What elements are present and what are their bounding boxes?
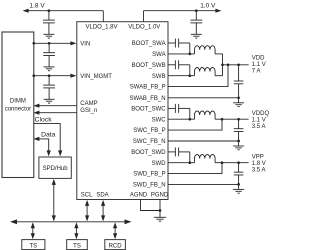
regulator IC box [77,22,168,200]
inductor LA [195,46,216,54]
label 1.8 V [30,2,46,9]
wire SWB [168,75,195,77]
label TS [73,244,81,250]
svg-text:VIN: VIN [80,41,90,47]
wire SCL to bus [85,200,89,222]
arrow CAMP to DIMM [33,104,39,108]
node VPP at FB_P riser [221,161,224,164]
svg-text:SWAB_FB_P: SWAB_FB_P [130,85,166,91]
ground (1.8 V rail cap) [43,34,54,38]
wire BOOT_SWA + bootstrap capacitor A [168,39,190,54]
svg-text:SWD_FB_P: SWD_FB_P [133,172,165,178]
wire BOOT_SWB + bootstrap capacitor B [168,60,190,75]
svg-text:SCL: SCL [81,192,93,198]
svg-text:3.5 A: 3.5 A [252,168,266,174]
node VDD at FB_P [227,63,230,66]
node VDDQ at FB_P riser [221,118,224,121]
SPD/Hub box [39,157,71,178]
svg-text:3.5 A: 3.5 A [252,124,266,130]
svg-text:SWB: SWB [152,74,166,80]
wire SDA to bus [101,200,105,222]
pin label VIN [80,41,90,47]
pin label SWD_FB_N [133,183,166,189]
DIMM connector box [2,32,34,178]
svg-text:connector: connector [5,107,31,113]
svg-text:VPP: VPP [252,155,264,161]
wire bus to RCD box [113,222,117,239]
svg-text:DIMM: DIMM [10,99,26,105]
svg-text:CAMP: CAMP [80,101,97,107]
arrow into VIN [70,41,76,45]
1.0 V rail arrow [215,9,221,13]
bus left arrow [10,219,17,224]
wire SPD/Hub to bus [53,183,55,217]
label DIMM connector [5,99,31,113]
RCD box [105,240,126,250]
arrow SPD link into bus [52,215,56,221]
pin label GSI_n [80,108,97,114]
pin label SWB [152,74,166,80]
pin label CAMP [80,101,97,107]
pin label SWC [152,117,167,123]
label VPP [252,155,266,174]
ground (VIN_MGMT cap) [44,99,55,103]
pin label SCL [81,192,93,198]
pin label VLDO_1.8V [85,24,117,30]
wire CAMP [39,105,77,107]
bus right arrow [125,219,132,224]
capacitor on 1.0 V rail [190,11,202,35]
pin label SWC_FB_P [133,128,165,134]
pin label SWAB_FB_P [130,85,166,91]
wire SWC_FB_P [168,119,222,130]
wire BOOT_SWD + bootstrap capacitor D [168,147,190,162]
svg-text:SWD: SWD [152,161,167,167]
inductor LB [195,67,216,75]
label SPD/Hub [43,166,69,172]
bus line [15,221,128,223]
wire SWD_FB_P [168,163,222,174]
wire SWAB_FB_P [168,65,228,87]
pin label VLDO_1.0V [128,24,160,30]
wire SWA/SWB joining riser [222,54,224,76]
label 1.0 V [200,2,216,9]
node SWD boot junction [188,161,191,164]
svg-text:BOOT_SWD: BOOT_SWD [131,150,166,156]
wire SWD [168,162,195,164]
node VIN at DIMM [32,42,35,45]
ground (AGND/PGND) [154,211,167,222]
wire SWA [168,53,195,55]
svg-text:1.1 V: 1.1 V [252,62,266,68]
label RCD [109,244,123,250]
node VDD at cap [237,63,240,66]
pin label BOOT_SWA [132,41,166,47]
svg-text:VLDO_1.0V: VLDO_1.0V [128,24,160,30]
output capacitor VPP [234,163,244,185]
ground (1.0 V rail cap) [191,34,202,38]
ground (VDD output) [233,98,244,107]
svg-text:VIN_MGMT: VIN_MGMT [80,74,112,80]
ground (VIN cap) [44,67,55,71]
TS box [67,240,88,250]
svg-text:AGND: AGND [130,192,148,198]
capacitor on VIN [43,43,55,67]
svg-text:BOOT_SWC: BOOT_SWC [131,107,166,113]
1.8 V rail arrow [23,9,29,13]
svg-text:SWC_FB_P: SWC_FB_P [133,128,165,134]
svg-text:SWC_FB_N: SWC_FB_N [133,139,166,145]
svg-text:SDA: SDA [96,192,108,198]
wire PGND [159,200,161,211]
wire VIN [34,42,71,44]
node VDDQ at cap [237,118,240,121]
node SWC boot junction [188,118,191,121]
net 1.8 V rail [28,11,104,22]
node VDD at riser [221,63,224,66]
arrow Data into SPD/Hub [47,150,51,156]
capacitor on 1.8 V rail [43,11,55,35]
label Data [41,132,56,139]
arrow Data to DIMM [33,137,39,141]
label Clock [35,116,53,123]
node AGND/PGND junction [159,209,162,212]
svg-text:PGND: PGND [151,192,169,198]
net 1.0 V rail [144,11,217,22]
svg-text:TS: TS [73,244,81,250]
arrow into VIN_MGMT [70,74,76,78]
node VIN_MGMT cap junction [48,74,51,77]
svg-text:BOOT_SWB: BOOT_SWB [132,63,166,69]
inductor LD [195,154,216,162]
output capacitor VDDQ [234,119,244,141]
wire SWD_FB_N [168,183,239,185]
svg-text:TS: TS [29,244,37,250]
svg-text:SWAB_FB_N: SWAB_FB_N [129,96,165,102]
node VPP at cap [237,161,240,164]
wire bus to TS box [74,222,78,239]
pin label SWD [152,161,167,167]
pin label AGND [130,192,148,198]
node SWB boot junction [188,74,191,77]
svg-text:1.1 V: 1.1 V [252,118,266,124]
pin label SWD_FB_P [133,172,165,178]
wire SWB to VDD node [215,75,222,77]
pin label SWC_FB_N [133,139,166,145]
arrow Clock into SPD/Hub [58,150,62,156]
wire Data [39,139,49,152]
node VIN_MGMT at DIMM [32,74,35,77]
node SWA boot junction [188,53,191,56]
svg-text:1.0 V: 1.0 V [200,2,216,9]
label VDDQ [252,111,270,130]
node SWD_FB_N cap junction [237,183,240,186]
node SWAB_FB_N cap junction [237,96,240,99]
label VDD [252,55,266,74]
arrow GSI_n to DIMM [33,111,39,115]
pin label VIN_MGMT [80,74,112,80]
pin label SWAB_FB_N [129,96,165,102]
wire SWC [168,118,195,120]
wire SWC_FB_N [168,140,239,142]
TS box [22,240,45,250]
svg-text:GSI_n: GSI_n [80,108,97,114]
node VIN cap junction [48,42,51,45]
ground (VPP output) [233,184,244,193]
net VDD output line [223,64,249,66]
svg-text:BOOT_SWA: BOOT_SWA [132,41,166,47]
wire AGND [141,200,161,211]
svg-text:SWD_FB_N: SWD_FB_N [133,183,166,189]
net VPP output line [215,162,249,164]
svg-text:SWA: SWA [152,52,165,58]
output capacitor VDD [234,65,244,98]
capacitor on VIN_MGMT [43,76,55,100]
pin label PGND [151,192,169,198]
ground (VDDQ output) [233,141,244,150]
inductor LC [195,111,216,119]
svg-text:SPD/Hub: SPD/Hub [43,166,69,172]
svg-text:Clock: Clock [35,116,53,123]
svg-text:7 A: 7 A [252,69,261,75]
arrow into SPD/Hub bottom [52,179,56,185]
wire SWA to VDD node [215,53,222,55]
svg-text:VDD: VDD [252,55,265,61]
node SWC_FB_N cap junction [237,140,240,143]
node 1.8V-cap junction [48,9,51,12]
pin label SWA [152,52,165,58]
pin label BOOT_SWC [131,107,166,113]
svg-text:SWC: SWC [152,117,167,123]
net VDDQ output line [215,118,249,120]
pin label SDA [96,192,108,198]
wire SWAB_FB_N [168,97,239,99]
svg-text:Data: Data [41,132,56,139]
wire BOOT_SWC + bootstrap capacitor C [168,104,190,119]
label TS [29,244,37,250]
svg-text:1.8 V: 1.8 V [252,161,266,167]
node 1.0V-cap junction [195,9,198,12]
wire Clock [33,124,60,152]
pin label BOOT_SWB [132,63,166,69]
svg-text:RCD: RCD [109,244,123,250]
wire VIN_MGMT [34,75,71,77]
pin label BOOT_SWD [131,150,166,156]
svg-text:1.8 V: 1.8 V [30,2,46,9]
svg-text:VLDO_1.8V: VLDO_1.8V [85,24,117,30]
wire bus to TS box [31,222,35,239]
wire GSI_n [39,112,77,114]
svg-text:VDDQ: VDDQ [252,111,270,117]
